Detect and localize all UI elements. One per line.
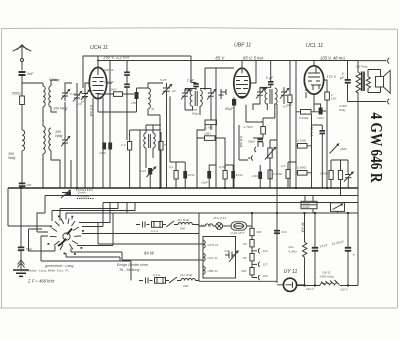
thermistor zigzag <box>303 213 307 286</box>
UCL grid resistor 0,1M <box>301 110 312 115</box>
tube UCL11 envelope <box>304 66 323 94</box>
svg-text:210 V: 210 V <box>305 287 315 291</box>
heater UCH11 <box>203 241 205 249</box>
AGC resistor 0,3M <box>223 171 227 180</box>
wire <box>148 83 163 115</box>
svg-text:900: 900 <box>180 227 185 231</box>
svg-text:4,7MΩ: 4,7MΩ <box>244 125 254 129</box>
svg-text:UBF 11: UBF 11 <box>234 43 251 49</box>
wire plate to IF2 <box>250 61 271 89</box>
mains row2 plug <box>139 278 153 284</box>
wire <box>289 61 291 188</box>
wire <box>270 104 277 213</box>
bus 2 <box>45 195 358 197</box>
svg-text:0,1MΩ: 0,1MΩ <box>297 139 307 143</box>
wire <box>223 225 231 227</box>
wire bottom plug line <box>348 101 387 103</box>
ballast U2018P <box>231 222 247 230</box>
svg-text:110: 110 <box>263 249 268 253</box>
svg-text:85: 85 <box>243 256 247 260</box>
svg-text:2500 Wdg: 2500 Wdg <box>319 275 334 279</box>
AGC cap c <box>183 171 187 179</box>
cap 8nF <box>274 230 280 232</box>
wire coil tops <box>43 80 57 86</box>
svg-text:50µF: 50µF <box>225 107 234 111</box>
svg-text:10nF: 10nF <box>317 116 325 120</box>
tap 220 <box>252 275 260 280</box>
svg-text:Wdg: Wdg <box>8 156 15 160</box>
UCL grid cap <box>319 108 323 115</box>
wire <box>221 89 234 188</box>
svg-text:2 pF: 2 pF <box>265 76 274 80</box>
wire <box>137 88 149 112</box>
svg-text:1200: 1200 <box>303 205 310 209</box>
resistor 0,1M boxed left <box>298 144 308 149</box>
coil L2b band <box>49 128 51 150</box>
svg-text:Wdg: Wdg <box>339 108 346 112</box>
wire <box>246 105 275 138</box>
padder capacitor <box>74 88 80 106</box>
mains row2 switch <box>166 277 178 283</box>
svg-text:3-23: 3-23 <box>140 169 146 173</box>
svg-text:1MΩ: 1MΩ <box>340 147 347 151</box>
coil L1a band <box>43 86 45 107</box>
svg-text:500Ω: 500Ω <box>12 92 21 96</box>
svg-text:900: 900 <box>183 284 188 288</box>
UCL plate wire <box>314 61 327 92</box>
wire <box>247 213 253 228</box>
feedback pot arrow <box>330 144 339 154</box>
wire <box>296 61 326 189</box>
svg-text:5k: 5k <box>164 143 168 147</box>
IF2 left trimmer <box>257 88 263 100</box>
svg-text:50µF: 50µF <box>248 140 256 144</box>
wire <box>305 196 313 214</box>
UCL11 electrodes <box>308 66 321 90</box>
smoothing resistor leg <box>304 213 306 242</box>
wire <box>191 83 196 91</box>
svg-text:10nF: 10nF <box>99 151 107 155</box>
svg-text:UCL 11: UCL 11 <box>306 43 323 49</box>
wire <box>197 68 211 188</box>
resistor 0,1M AGC <box>174 171 178 180</box>
wire <box>170 96 185 188</box>
svg-text:1MΩ: 1MΩ <box>204 132 211 136</box>
IF1 left trimmer <box>182 89 188 101</box>
wire screen feed <box>311 114 313 188</box>
IF transformer 2 secondary <box>275 88 277 104</box>
wire <box>251 236 253 240</box>
heater UCL11 <box>203 254 205 262</box>
wire grid column <box>85 83 90 188</box>
wire coil2 feet <box>43 150 60 188</box>
wire <box>149 175 151 189</box>
mains row1 fuse 0,1A <box>152 222 163 228</box>
svg-text:Fɨsɨ: Fɨsɨ <box>289 245 294 249</box>
padding cap 3-23 <box>148 168 152 175</box>
oscillator coupling cap <box>135 92 139 99</box>
tube UCH11 envelope <box>89 67 106 98</box>
osc padder resistor b <box>159 142 163 151</box>
svg-text:5,6 Wdg: 5,6 Wdg <box>356 65 368 69</box>
svg-text:150: 150 <box>331 97 336 101</box>
svg-text:UCH 11: UCH 11 <box>90 45 108 51</box>
svg-text:4,5kΩ: 4,5kΩ <box>289 250 298 254</box>
wire <box>312 125 323 188</box>
mains row2 fuse 0,1A <box>155 278 166 284</box>
switch right wire 1 <box>82 233 199 235</box>
svg-text:5-25: 5-25 <box>160 78 166 82</box>
UBF11 electrodes <box>236 68 248 96</box>
grid resistor 0,5M <box>268 170 272 179</box>
svg-text:Wdg: Wdg <box>55 134 62 138</box>
secondary winding <box>366 70 380 93</box>
svg-text:84 W: 84 W <box>144 251 155 256</box>
switch top feeds <box>37 218 72 232</box>
svg-text:300: 300 <box>256 230 261 234</box>
resistor box 70ohm 1200 <box>301 201 317 208</box>
svg-text:2nF: 2nF <box>26 72 34 76</box>
svg-text:440: 440 <box>241 269 246 273</box>
svg-text:2 pF: 2 pF <box>186 79 195 83</box>
TA jack upper <box>248 156 253 161</box>
junction dots on bus <box>20 187 328 189</box>
svg-text:120 V: 120 V <box>340 288 349 292</box>
decoupling cap right <box>320 130 326 132</box>
wire <box>347 182 349 188</box>
osc coil core <box>149 134 151 148</box>
IF transformer 1 secondary <box>200 90 202 106</box>
wire row2 to loop <box>177 280 199 282</box>
svg-text:Wdg: Wdg <box>192 112 199 116</box>
svg-text:31: 31 <box>151 107 155 111</box>
AGC cap d <box>207 171 211 179</box>
svg-text:TA - Stellung: TA - Stellung <box>119 268 139 272</box>
AGC cap e <box>231 171 235 179</box>
IF transformer 2 primary <box>265 88 267 104</box>
svg-text:85 V, 5 mA: 85 V, 5 mA <box>243 56 264 61</box>
svg-text:Reihenfolge : Lang, Mittel, Ku: Reihenfolge : Lang, Mittel, Kurz, TA <box>20 269 69 273</box>
capacitor at antenna coil foot <box>19 183 26 185</box>
variable resistor box <box>331 203 345 212</box>
transformer core <box>362 72 364 92</box>
wire <box>199 225 216 227</box>
rotary switch hub <box>63 233 70 240</box>
svg-text:10: 10 <box>78 102 82 106</box>
ground bus main <box>8 187 358 189</box>
wire <box>331 160 348 196</box>
switch right wire 2 <box>71 213 203 260</box>
wire top plug line <box>358 60 386 62</box>
junction dots power <box>251 212 349 287</box>
svg-text:172 V: 172 V <box>327 75 337 79</box>
svg-text:μF: μF <box>339 76 345 80</box>
coil L1b band <box>49 86 51 107</box>
bus 3 <box>103 202 358 204</box>
power loop bottom <box>199 281 277 283</box>
switch spokes <box>50 219 81 251</box>
oscillator trimmer 5-25 <box>163 83 170 96</box>
speaker body <box>376 77 384 88</box>
grid leak 1 Mohm <box>205 120 217 125</box>
svg-text:85 V: 85 V <box>216 55 226 60</box>
svg-text:18 V 0,14: 18 V 0,14 <box>213 216 227 220</box>
switch contact dots <box>48 216 84 255</box>
heater box <box>203 237 236 279</box>
wire <box>239 125 263 160</box>
wire to ground bus <box>21 186 23 189</box>
TA jack lower <box>255 142 258 152</box>
switch lower loop <box>29 229 132 281</box>
wire row1 to loop <box>174 224 199 226</box>
plug bottom <box>388 99 390 104</box>
svg-text:112 Wdg: 112 Wdg <box>180 273 192 277</box>
mains row1 plug <box>136 222 150 228</box>
AGC resistor f <box>286 170 290 179</box>
svg-text:127: 127 <box>263 263 268 267</box>
ground symbol <box>13 270 29 276</box>
UBF side cap <box>219 89 224 99</box>
coil L2a band <box>43 126 45 154</box>
svg-text:0,5MΩ: 0,5MΩ <box>297 166 307 170</box>
node antenna/coil tap <box>22 82 43 84</box>
power loop top rail <box>113 212 358 214</box>
wire left into switch <box>8 188 50 226</box>
UBF plate wire <box>241 61 243 69</box>
UBF cathode resistor <box>232 99 236 106</box>
wire <box>21 151 23 183</box>
heater choke bump <box>205 224 213 226</box>
heater UBF11 <box>203 267 205 275</box>
svg-text:100: 100 <box>26 183 31 187</box>
IF1 wiring <box>185 89 211 121</box>
rail IF to UBF grid <box>205 68 234 188</box>
wire 5uF column <box>347 61 349 102</box>
IF2 right trimmer <box>281 88 287 100</box>
svg-text:112 Wdg: 112 Wdg <box>177 218 189 222</box>
wire <box>314 252 316 286</box>
svg-text:0,5: 0,5 <box>281 164 286 168</box>
svg-text:U 20 18 P: U 20 18 P <box>231 231 246 235</box>
mains row1 switch <box>163 221 175 227</box>
wire padder column <box>76 83 78 188</box>
tone resistor b <box>338 171 342 180</box>
AGC cap row: cap 10nF a <box>102 143 106 150</box>
rectifier tube UY11 <box>283 278 296 291</box>
svg-text:gezeichnet : Lang: gezeichnet : Lang <box>45 264 73 268</box>
svg-text:10nF: 10nF <box>236 173 244 177</box>
coil 300 Wdg antenna <box>22 130 25 151</box>
dropper resistor 300 <box>250 228 254 235</box>
wire trimmer columns <box>65 83 72 188</box>
bus2 left drop to switch <box>37 196 45 219</box>
wire cap column <box>126 61 128 95</box>
wire <box>197 138 225 170</box>
wire <box>288 162 296 188</box>
tone resistor a <box>329 171 333 180</box>
wire <box>21 105 23 131</box>
cap 10nF b <box>108 143 112 150</box>
rotor curve <box>58 229 72 247</box>
trimmer capacitor band 2 <box>62 135 68 148</box>
dropper resistor 85 <box>250 254 254 261</box>
svg-text:50: 50 <box>243 242 247 246</box>
svg-text:0,5MΩ: 0,5MΩ <box>320 172 330 176</box>
svg-text:10nF: 10nF <box>252 174 260 178</box>
volume pot <box>268 148 272 158</box>
bottom supply bus <box>297 285 358 287</box>
dropper resistor 440 <box>250 268 254 275</box>
wire <box>209 165 233 188</box>
bus3 left drop <box>82 203 103 227</box>
wire <box>337 203 339 214</box>
svg-text:0,1 A: 0,1 A <box>151 229 158 233</box>
antenna lead-in node <box>21 59 24 62</box>
tube UBF11 envelope <box>234 68 250 98</box>
rail 150V plate <box>83 56 191 88</box>
wire <box>296 145 312 147</box>
wire coil feet <box>43 107 57 126</box>
svg-text:150 V, 2,2 mA: 150 V, 2,2 mA <box>103 55 129 60</box>
speaker cone <box>384 70 391 93</box>
wiring osc coils <box>130 125 161 188</box>
resistor 0,5M boxed left <box>298 171 308 176</box>
IF transformer 1 primary <box>190 90 192 106</box>
svg-text:UBF 11: UBF 11 <box>208 269 218 273</box>
capacitor 2nF antenna <box>19 71 26 73</box>
svg-text:0,1MΩ: 0,1MΩ <box>299 116 309 120</box>
wire <box>21 76 23 96</box>
svg-text:105 V, 48 mA: 105 V, 48 mA <box>320 56 345 61</box>
svg-text:Kondens.: Kondens. <box>78 195 91 199</box>
IF2 wiring <box>253 87 284 118</box>
svg-text:10nF: 10nF <box>201 181 209 185</box>
wire trimmer to bus <box>160 96 167 188</box>
wire <box>306 87 327 188</box>
routing corner wires <box>52 203 135 223</box>
svg-text:500 pF: 500 pF <box>104 68 115 72</box>
tone trimmer <box>345 173 352 182</box>
power loop left leg <box>198 213 200 281</box>
IF1 right trimmer <box>208 89 214 101</box>
wire below bus to 5nF <box>20 188 22 247</box>
wire antenna down <box>21 47 23 71</box>
svg-text:0,5MΩ: 0,5MΩ <box>273 172 283 176</box>
capacitor 5nF <box>18 247 25 249</box>
tap 127 <box>252 261 260 268</box>
wire <box>296 172 312 174</box>
svg-text:100 pF: 100 pF <box>104 80 115 84</box>
oscillator coil set primary <box>144 133 146 148</box>
wire <box>260 158 270 188</box>
wire <box>20 251 22 270</box>
diode load resistor <box>288 95 292 103</box>
arrow on ground lead <box>18 260 25 268</box>
first filter cap 16uF <box>314 213 316 247</box>
svg-text:1,0: 1,0 <box>121 143 126 147</box>
wire <box>98 61 137 189</box>
svg-text:0,1 A: 0,1 A <box>153 273 160 277</box>
svg-text:0,5 mA: 0,5 mA <box>89 105 93 117</box>
AF coupling cap <box>258 172 262 180</box>
trimmer capacitor band 1 <box>62 88 68 101</box>
svg-text:1 MΩ: 1 MΩ <box>206 126 214 130</box>
IF1 core <box>195 91 197 106</box>
svg-text:UCL 11: UCL 11 <box>208 256 218 260</box>
second filter cap 16-32uF <box>347 213 349 247</box>
UCH11 grid trimmer <box>82 86 88 103</box>
svg-text:150: 150 <box>131 101 136 105</box>
antenna <box>13 45 32 52</box>
svg-text:4 GW 646 R: 4 GW 646 R <box>367 113 386 184</box>
svg-text:0,1: 0,1 <box>169 165 174 169</box>
UCH11 electrodes <box>93 70 104 99</box>
svg-text:Z F = 468 kHz: Z F = 468 kHz <box>27 279 55 284</box>
wire <box>347 252 349 286</box>
plug top <box>388 58 390 63</box>
tuning capacitor gang symbol <box>62 193 67 196</box>
oscillator coil set secondary <box>153 133 155 148</box>
oscillator coil <box>148 88 150 109</box>
rail screen <box>97 56 358 83</box>
heater return rail <box>276 213 278 281</box>
osc padder resistor a <box>128 142 132 151</box>
IF2 core <box>270 89 272 104</box>
tap 110 <box>252 247 260 254</box>
svg-text:UCH 11: UCH 11 <box>208 243 219 247</box>
svg-text:UY 11: UY 11 <box>284 269 298 275</box>
output transformer primary 4000 Wdg <box>356 61 361 286</box>
svg-text:Einige Geräte ohne: Einige Geräte ohne <box>117 263 148 267</box>
svg-text:220: 220 <box>262 274 268 278</box>
dropper resistor 50 <box>250 240 254 247</box>
UCH11 pin wires down <box>93 98 103 189</box>
UCL cathode resistor boxed <box>325 92 330 100</box>
svg-text:10nF: 10nF <box>188 173 196 177</box>
